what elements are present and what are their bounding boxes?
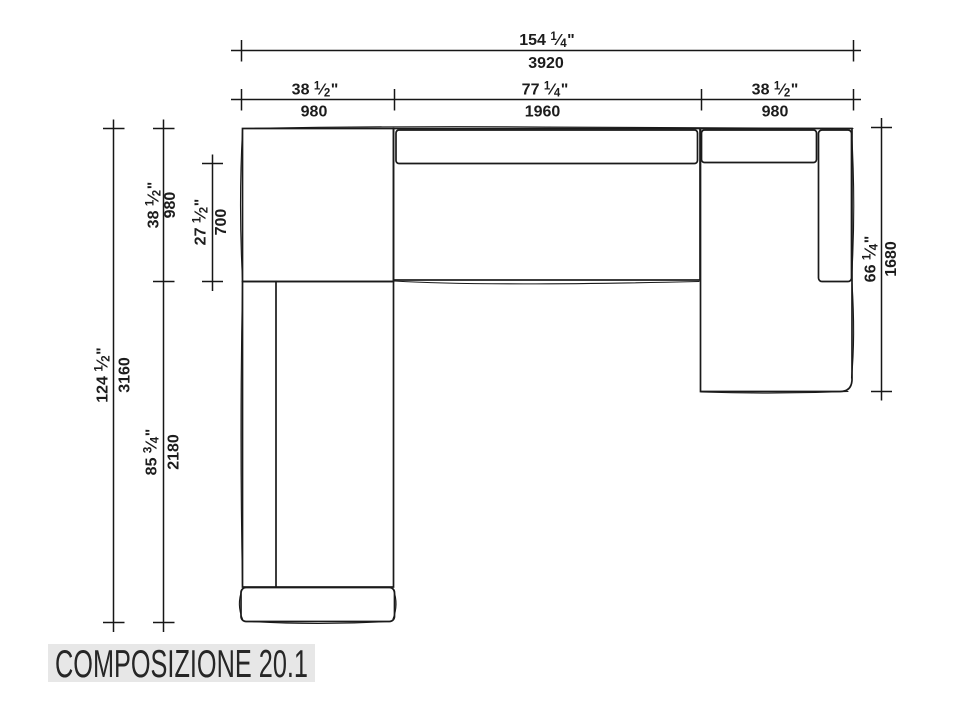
svg-text:980: 980 <box>162 192 179 219</box>
tick <box>241 89 243 111</box>
tick <box>153 622 175 624</box>
svg-text:980: 980 <box>762 104 789 121</box>
svg-text:3920: 3920 <box>528 55 564 72</box>
svg-text:COMPOSIZIONE 20.1: COMPOSIZIONE 20.1 <box>55 643 308 686</box>
tick <box>701 89 703 111</box>
dimension line 38.5+85.75 chained (left vertical) <box>163 120 165 633</box>
dimension line 27 1/2 (seat depth) <box>212 155 214 292</box>
tick <box>153 281 175 283</box>
sketch right unit bottom <box>701 392 848 394</box>
tick <box>853 40 855 62</box>
dimension line 124 1/2 (far left vertical) <box>113 120 115 633</box>
svg-text:2180: 2180 <box>166 434 183 470</box>
svg-text:3160: 3160 <box>117 357 134 393</box>
dimension line 154 1/4 (top) <box>231 50 861 52</box>
sketch contour strokes <box>239 127 853 624</box>
tick <box>202 163 223 165</box>
middle back cushion <box>396 130 698 164</box>
svg-text:124 1⁄2": 124 1⁄2" <box>94 347 113 403</box>
middle unit outline <box>394 129 701 281</box>
svg-text:154 1⁄4": 154 1⁄4" <box>519 31 575 50</box>
dimension line 38/77/38 (second) <box>231 99 861 101</box>
sketch left edge corner unit <box>241 130 243 280</box>
chaise unit <box>243 282 394 588</box>
corner unit (980x980) outline <box>243 129 394 282</box>
svg-text:700: 700 <box>213 209 230 236</box>
sketch top contour <box>243 127 854 129</box>
svg-text:1680: 1680 <box>883 241 900 277</box>
right back cushion <box>702 130 817 163</box>
sketch ottoman bottom <box>250 622 387 624</box>
sketch ottoman left cap <box>239 590 242 619</box>
svg-text:1960: 1960 <box>525 104 561 121</box>
dimension graphics <box>103 40 892 632</box>
tick <box>871 391 892 393</box>
title background box <box>48 644 315 682</box>
tick <box>871 127 892 129</box>
dimension line 66 1/4 (right vertical) <box>881 118 883 401</box>
tick <box>103 128 125 130</box>
tick <box>241 40 243 62</box>
chaise arm line <box>275 282 277 588</box>
sketch left edge chaise <box>241 283 243 586</box>
right unit outline <box>701 129 853 392</box>
sketch seat front curve <box>394 281 699 284</box>
tick <box>394 89 396 111</box>
tick <box>153 128 175 130</box>
tick <box>853 89 855 111</box>
ottoman cushion <box>241 588 395 622</box>
sketch ottoman right cap <box>393 590 396 619</box>
sketch right edge arm <box>852 131 854 280</box>
tick <box>103 622 125 624</box>
svg-text:980: 980 <box>301 104 328 121</box>
right arm <box>819 130 852 282</box>
tick <box>202 281 223 283</box>
sketch right edge lower right unit <box>852 283 854 378</box>
